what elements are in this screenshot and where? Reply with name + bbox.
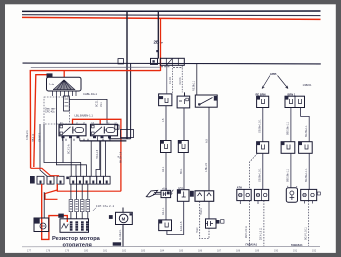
svg-text:BBE.Bk+1.1: BBE.Bk+1.1 [287,168,290,182]
svg-text:186: 186 [198,249,203,252]
svg-text:I—►: I—► [49,83,54,86]
module frame [121,130,134,138]
wires relays to connector row [70,138,72,176]
connector X4 [177,190,189,202]
connector block X2 [195,191,214,202]
connector row X1 label [30,176,35,184]
svg-text:177: 177 [27,249,32,252]
mid connector RA [257,142,269,154]
resistor squiggle [62,224,69,229]
svg-text:2B.Y-1.5 11: 2B.Y-1.5 11 [260,227,263,240]
wire trunk T3 [130,64,132,139]
box A connector [159,94,172,106]
svg-text:BC.Y.1-A: BC.Y.1-A [67,144,70,154]
bus rail 15 (second navy line) [22,14,321,17]
wire to X5 [165,198,167,220]
svg-text:HB.1 4: HB.1 4 [32,134,35,142]
riser to box A [166,66,168,94]
mid connector RC [299,142,313,154]
connector pair P1 [237,189,251,200]
relay K1 [59,124,86,136]
row pin marks [40,181,108,184]
wires into row [90,141,92,176]
svg-text:187: 187 [217,249,222,252]
bus rail X (red line) [22,17,321,19]
svg-text:nf.bk: nf.bk [162,189,168,191]
mid connector RB [281,142,295,154]
box B connector [177,96,190,108]
red feed to ignition [30,71,160,169]
ground G18 [113,242,121,245]
wires mid connectors down [165,153,167,191]
svg-text:BG.Y-1.5 11: BG.Y-1.5 11 [304,227,307,240]
diag leader [93,208,96,211]
wire [62,138,64,162]
svg-text:K.Bk-2.1: K.Bk-2.1 [26,130,29,140]
ruler numbers [27,249,317,252]
connector X9 on rail [118,59,124,64]
dashed diagonal RA branch [250,153,258,189]
red jog from row [45,184,58,199]
svg-text:BK.Ch-1.5: BK.Ch-1.5 [119,151,122,163]
connector cells on rail [160,58,184,65]
connector pair P4 [301,189,317,200]
label 28 box [47,73,53,77]
svg-text:181: 181 [103,249,108,252]
wires mid row down [262,153,264,189]
row gap label [66,177,69,180]
terminal block [64,96,70,111]
connector pair P2 [254,189,268,200]
switch pins [52,91,76,96]
svg-text:C2.CK: C2.CK [179,77,182,84]
svg-text:G1B: G1B [114,242,119,246]
red wire into connector row [31,168,59,176]
red wire inner [34,75,47,167]
bottom rule [22,245,320,247]
svg-text:HF.2-1.5: HF.2-1.5 [96,149,99,159]
svg-text:185: 185 [179,249,184,252]
arrow pointer [146,190,157,197]
switch S2 [195,95,217,107]
wire XA down [262,108,264,142]
red branch to heater resistor [42,184,68,239]
wire to blower switch [43,192,45,218]
wire suppressor to X2 [208,201,210,219]
dashed drops to bottom rail [249,201,251,247]
extra pin stubs on relay bus [63,136,111,141]
wire XB left pin [290,108,292,142]
wire red feed F1 [160,18,162,71]
connector XA [257,96,269,107]
wire X4 loop [167,201,184,234]
wire XB right pin jog [301,108,310,142]
svg-text:BBE.Bk+1.1: BBE.Bk+1.1 [287,121,290,135]
svg-text:ur: ur [108,121,110,124]
ignition lock housing dashed [44,97,70,124]
heater resistor R1 [60,219,89,233]
switch fan contacts [54,80,75,90]
svg-text:CHBL.DA-1: CHBL.DA-1 [83,92,98,96]
motor ground wire [122,225,124,247]
relay K2 coil [106,128,115,133]
svg-text:26.Y-1.5 11: 26.Y-1.5 11 [245,225,248,238]
wire trunk T1 [126,11,128,138]
svg-text:1ЭВ/21: 1ЭВ/21 [303,83,312,87]
svg-text:BG.Bk+1.1 1: BG.Bk+1.1 1 [305,168,308,182]
svg-text:184: 184 [160,249,165,252]
bus rail 30 (top navy line) [22,10,321,12]
dashes under cells [161,66,170,68]
svg-text:183: 183 [141,249,146,252]
svg-text:Gn-1.1: Gn-1.1 [162,207,165,215]
svg-text:АПВ: АПВ [270,72,277,76]
capacitor C1 [206,219,217,228]
svg-text:C1.CK: C1.CK [169,77,172,84]
svg-text:2Б: 2Б [154,40,161,45]
svg-text:178: 178 [46,249,51,252]
svg-text:Резистор мотора: Резистор мотора [52,236,101,242]
red drop to relay K2 [99,119,101,124]
relay K1 coil [75,128,84,133]
wires row to resistor with sleeve labels [71,184,88,219]
svg-text:1.Bk-1.5: 1.Bk-1.5 [205,162,208,172]
svg-text:Gn.1: Gn.1 [162,166,165,172]
svg-text:СРС-42с: СРС-42с [45,111,55,114]
svg-text:180: 180 [84,249,89,252]
relay K2 right pin boxes [115,125,119,129]
svg-text:b.Gn-1.5: b.Gn-1.5 [180,221,183,231]
wire [56,96,86,176]
relay K2 pin boxes [93,136,96,138]
thick relay output bus [80,140,127,142]
wire box B down [183,108,185,141]
svg-text:ur: ur [76,121,78,124]
svg-text:188: 188 [236,249,241,252]
svg-text:182: 182 [122,249,127,252]
svg-text:189: 189 [255,249,260,252]
wire box A down [165,106,167,141]
svg-text:RE.Bk1.1: RE.Bk1.1 [193,80,196,91]
svg-text:ГАВА5А1: ГАВА5А1 [246,243,258,247]
svg-text:192: 192 [312,249,317,252]
wire sleeve label blocks [69,200,90,212]
mid connector M2 [178,141,188,153]
red relay feed rail [73,119,121,191]
wire trunk T2 [157,11,159,58]
svg-text:АТН: АТН [237,186,242,189]
svg-text:15.1: 15.1 [100,102,103,107]
pin stubs below pairs [240,201,312,204]
connector XB [285,96,305,107]
svg-text:LBL.BN/BN-1.1: LBL.BN/BN-1.1 [75,113,94,117]
svg-text:GB.Bk+1.5 1: GB.Bk+1.5 1 [258,119,261,133]
svg-text:11.Gb-2.1: 11.Gb-2.1 [119,229,122,240]
relay K1 pin boxes [62,136,65,138]
svg-text:A X: A X [204,139,208,143]
switch S2 feed [196,64,198,95]
dashed risers [172,66,174,94]
gray feed line [31,66,161,68]
switch S2 output [208,107,210,191]
connector X5 [159,220,172,231]
svg-text:BC.21: BC.21 [96,100,99,107]
connector L on rail [151,58,158,64]
red return rail [57,184,121,191]
svg-text:GH-1: GH-1 [178,188,184,190]
svg-text:H.Gn: H.Gn [196,227,199,233]
wire [69,99,107,123]
mid connector M1 [161,141,172,153]
connector X3 [161,190,171,197]
suppressor loop dashed [200,201,209,238]
wire jog [96,141,100,176]
red drop into ignition switch [63,71,65,78]
blower motor M1 [116,212,133,224]
label 24 box [58,214,64,218]
svg-text:отопителя: отопителя [63,242,92,248]
tick mark [156,50,158,52]
relay K2 [91,124,118,136]
svg-text:1ЭГ. Ch+ 2..1: 1ЭГ. Ch+ 2..1 [96,204,115,208]
blower switch E1 [34,218,49,232]
svg-text:H.Gn1: H.Gn1 [200,207,203,215]
svg-text:BG.Bk+1.1: BG.Bk+1.1 [305,125,308,137]
resistor coil bars [70,221,89,230]
label W [109,215,113,219]
motor feed wire [122,208,124,213]
blade in cell [167,59,172,65]
svg-text:GB.Bk+1.5 1: GB.Bk+1.5 1 [258,168,261,182]
interior rail (horizontal line mid) [23,62,321,65]
leader arrows [262,76,270,89]
svg-text:191: 191 [293,249,298,252]
svg-text:179: 179 [65,249,70,252]
svg-text:190: 190 [274,249,279,252]
svg-text:BN.1: BN.1 [180,168,183,174]
ignition switch S1 [47,77,82,91]
connector row X1 cells [37,176,110,184]
bus below module [109,138,131,140]
svg-text:M: M [122,216,126,221]
